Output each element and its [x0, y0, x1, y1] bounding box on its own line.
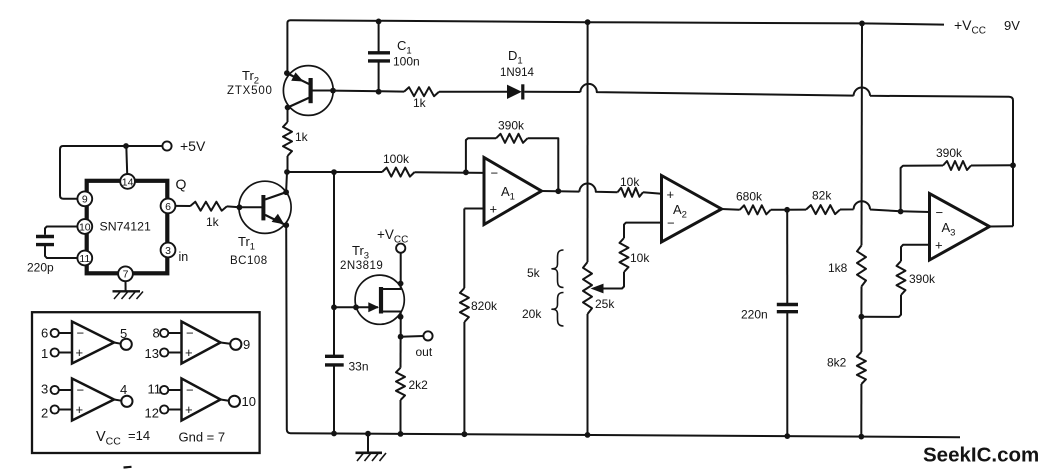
- node Tr1 collector / 1k / 100k line: [284, 169, 290, 175]
- transistor Tr3 channel bar: [379, 287, 383, 314]
- wire +Vcc rail down to 1k8: [861, 23, 864, 245]
- wire 1k to Tr1 base: [227, 205, 239, 208]
- capacitor C1: [368, 51, 390, 54]
- svg-text:9: 9: [243, 337, 250, 352]
- svg-text:ZTX500: ZTX500: [227, 85, 273, 97]
- svg-text:−: −: [936, 205, 944, 220]
- transistor Q Tr1 BC108 circle: [239, 181, 291, 233]
- svg-text:1k: 1k: [206, 215, 220, 229]
- svg-text:=14: =14: [128, 428, 150, 443]
- wire 680k to node: [771, 209, 787, 211]
- terminal +Vcc (Tr3 drain): [396, 244, 405, 253]
- svg-text:Q: Q: [176, 176, 187, 192]
- transistor Tr3 source lead: [383, 312, 401, 337]
- node A1 output: [555, 188, 561, 194]
- resistor R 390k (A1 feedback): [496, 134, 528, 143]
- node top rail / 1k8 divider line: [859, 21, 865, 27]
- svg-text:680k: 680k: [736, 190, 763, 204]
- svg-text:+: +: [76, 345, 84, 360]
- resistor R 820k: [460, 288, 469, 322]
- node top rail / 25k pot line: [585, 19, 591, 25]
- transistor Tr1 base wire inside: [239, 206, 263, 208]
- svg-text:14: 14: [122, 176, 134, 188]
- capacitor C 220p: [36, 235, 54, 238]
- svg-text:2k2: 2k2: [409, 378, 429, 392]
- ground (main rail): [367, 434, 369, 452]
- resistor R 390k (A3 feedback): [943, 161, 971, 170]
- wire divider node to 390k vertical: [861, 295, 901, 317]
- wire A2 minus input to 10k vertical: [624, 223, 662, 238]
- transistor Tr1 collector diagonal: [265, 192, 286, 199]
- capacitor C1 top lead: [378, 21, 380, 52]
- svg-text:−: −: [77, 383, 85, 398]
- svg-text:25k: 25k: [595, 297, 615, 311]
- resistor R 1k (pin6 to Tr1): [190, 202, 227, 211]
- svg-text:SeekIC.com: SeekIC.com: [923, 444, 1039, 467]
- wire out terminal: [401, 335, 424, 338]
- comparator symbol (pins 3,2,4): [72, 379, 114, 421]
- stray mark below box: [124, 466, 132, 469]
- pin 14: [120, 174, 135, 189]
- wire 390k A1 feedback left leg: [466, 138, 496, 172]
- transistor Tr1 emitter arrow (NPN): [272, 214, 285, 225]
- node rail / 8k2: [858, 434, 864, 440]
- svg-text:9: 9: [82, 194, 88, 206]
- svg-text:82k: 82k: [812, 189, 832, 203]
- svg-text:BC108: BC108: [230, 255, 268, 267]
- svg-text:11: 11: [79, 253, 90, 265]
- svg-text:10: 10: [242, 394, 256, 409]
- wire A1 plus input stub: [464, 208, 484, 210]
- transistor Tr2 base bar: [309, 78, 313, 103]
- svg-text:−: −: [186, 383, 194, 398]
- wire 1k to D1: [439, 91, 507, 93]
- resistor R 10k (A2 minus to wiper): [620, 238, 629, 272]
- svg-text:+: +: [667, 187, 675, 202]
- op-amp U A1 triangle: [484, 158, 542, 225]
- transistor Q Tr3 2N3819 circle: [355, 275, 404, 324]
- diode D1 1N914: [507, 85, 522, 99]
- op-amp U A3 triangle: [930, 194, 990, 261]
- pin 11: [77, 251, 92, 266]
- resistor R 680k: [740, 205, 771, 214]
- wire +5V to node: [126, 145, 162, 147]
- wire 2k2 to ground rail: [400, 400, 402, 434]
- svg-text:−: −: [186, 326, 194, 341]
- wire 220n to ground rail: [786, 312, 788, 436]
- wire 220p bottom to pin 11: [45, 246, 78, 258]
- svg-text:Gnd = 7: Gnd = 7: [179, 430, 226, 445]
- resistor R 1k8: [857, 245, 866, 286]
- svg-text:100n: 100n: [393, 55, 420, 69]
- svg-text:8: 8: [153, 325, 160, 340]
- svg-text:−: −: [667, 216, 675, 231]
- svg-text:8k2: 8k2: [827, 356, 847, 370]
- wire A2 output to 680k: [722, 208, 740, 211]
- wire A3 output: [990, 225, 1014, 227]
- node rail / 25k: [585, 432, 591, 438]
- transistor Tr2 emitter diagonal: [287, 73, 310, 84]
- node rail / 820k: [462, 431, 468, 437]
- resistor R 2k2: [396, 368, 405, 400]
- junction Tr1 emitter exit: [283, 222, 289, 228]
- pin 10: [77, 219, 92, 234]
- brace 20k section: [552, 293, 564, 327]
- svg-text:2: 2: [41, 405, 48, 420]
- wire 100k to A1 inverting input: [415, 171, 485, 174]
- wire A3 minus node up leg: [901, 166, 943, 212]
- resistor R 82k: [806, 205, 840, 214]
- svg-text:1k: 1k: [413, 96, 427, 110]
- comparator symbol (pins 8,13,9): [182, 322, 221, 364]
- node 680k / 82k / 220n: [784, 207, 790, 213]
- potentiometer R 25k body: [583, 262, 592, 314]
- junction Tr2 base exit: [330, 88, 336, 94]
- node A3 inverting input / 390k feedback: [898, 209, 904, 215]
- wire 100k-line node down to Tr3 gate and 33n: [333, 172, 335, 356]
- svg-text:390k: 390k: [909, 272, 936, 286]
- svg-text:1N914: 1N914: [500, 67, 534, 79]
- pin 3: [161, 243, 176, 258]
- wire +Vcc top supply rail: [287, 20, 944, 74]
- junction Tr3 gate circle-edge: [353, 304, 359, 310]
- transistor Tr1 emitter diagonal: [265, 215, 286, 225]
- wire 82k to A3 inverting input (hop over divider line): [840, 201, 930, 212]
- junction Tr1 base: [237, 204, 243, 210]
- svg-text:5: 5: [120, 326, 127, 341]
- resistor R 1k (C1-D1 line): [404, 87, 439, 96]
- capacitor C 220n: [777, 303, 798, 306]
- wire Tr1 collector up to node: [285, 172, 288, 192]
- svg-text:+5V: +5V: [180, 138, 206, 154]
- wire 33n to ground rail: [333, 365, 335, 434]
- svg-text:100k: 100k: [383, 152, 410, 166]
- svg-text:−: −: [491, 166, 499, 181]
- svg-text:3: 3: [165, 245, 171, 257]
- node rail / ground stem: [365, 431, 371, 437]
- svg-text:10k: 10k: [630, 251, 650, 265]
- node Tr3 source / out / 2k2: [398, 334, 404, 340]
- svg-text:+: +: [185, 345, 193, 360]
- svg-text:820k: 820k: [471, 299, 498, 313]
- junction Tr3 gate / 33n line: [331, 304, 337, 310]
- svg-text:33n: 33n: [349, 360, 369, 374]
- svg-text:SN74121: SN74121: [100, 220, 151, 234]
- wire pin 6 to 1k: [175, 205, 190, 207]
- op-amp U A2 triangle: [662, 176, 722, 243]
- svg-text:1k8: 1k8: [828, 261, 848, 275]
- junction Tr1 collector exit: [283, 189, 289, 195]
- svg-text:9V: 9V: [1004, 18, 1020, 33]
- wire 10k to wiper arrow: [601, 272, 624, 289]
- resistor R 390k (A3 plus input): [897, 261, 906, 295]
- node rail / 220n: [784, 433, 790, 439]
- resistor R 100k: [382, 168, 415, 177]
- capacitor C1 bottom lead: [378, 61, 380, 92]
- transistor Tr2 collector diagonal: [288, 98, 310, 108]
- terminal out: [423, 331, 432, 340]
- svg-text:in: in: [179, 250, 189, 264]
- wire D1 cathode to right vertical (hops over 587 and 862 lines): [524, 84, 1013, 165]
- node 390k feedback / D1 line / A3 output: [1010, 162, 1016, 168]
- node divider 1k8/8k2/390k: [859, 314, 865, 320]
- pin 6: [161, 199, 176, 214]
- wire A1 output to 10k (hop over pot line): [542, 184, 618, 193]
- junction Tr2 emitter-lead: [284, 70, 290, 76]
- pin 9: [77, 191, 92, 206]
- wire source node to 2k2: [400, 337, 402, 368]
- node top rail / C1: [376, 19, 382, 25]
- svg-text:1k: 1k: [295, 130, 309, 144]
- junction Tr2 collector-lead: [285, 105, 291, 111]
- node +5V / pin14 / pin9 loop: [123, 143, 129, 149]
- wire Tr2 base stub: [312, 90, 333, 92]
- wire 680k node down to 220n: [786, 210, 788, 304]
- transistor Tr3 gate arrow: [368, 302, 379, 312]
- svg-text:+: +: [490, 202, 498, 217]
- wire Tr2 collector down: [287, 108, 289, 123]
- transistor Tr2 emitter arrow (PNP): [291, 72, 303, 81]
- wire 10k to A2 plus input: [643, 192, 662, 194]
- wire node to 100k: [287, 171, 382, 173]
- wire node to pin 14: [125, 146, 128, 174]
- svg-text:390k: 390k: [936, 146, 963, 160]
- svg-text:11: 11: [148, 381, 162, 396]
- wire pin 10 to 220p top: [45, 227, 78, 235]
- svg-text:−: −: [77, 326, 85, 341]
- svg-text:220p: 220p: [27, 261, 54, 275]
- wire 390k A1 feedback right leg: [528, 138, 559, 191]
- IC U SN74121 outline: [87, 181, 168, 273]
- resistor R 8k2: [857, 352, 866, 384]
- resistor R 1k (Tr2 collector): [283, 122, 292, 156]
- wire 1k to 100k-line node: [287, 156, 289, 172]
- wire 8k2 to ground rail: [860, 384, 862, 437]
- node C1 / base line: [376, 89, 382, 95]
- node rail / 33n: [331, 431, 337, 437]
- transistor Tr1 base bar: [261, 195, 265, 220]
- wire 25k pot to ground rail: [587, 314, 589, 435]
- svg-text:+: +: [185, 402, 193, 417]
- resistor R 10k (A1 to A2): [618, 188, 644, 197]
- junction Tr3 drain circle-edge: [398, 281, 404, 287]
- svg-text:2N3819: 2N3819: [340, 260, 383, 272]
- transistor Tr3 drain lead: [383, 253, 401, 289]
- svg-text:+: +: [935, 238, 943, 253]
- svg-text:220n: 220n: [741, 308, 768, 322]
- svg-text:1: 1: [41, 346, 48, 361]
- svg-text:13: 13: [145, 346, 159, 361]
- capacitor C 33n: [325, 355, 344, 358]
- wire 390k feedback to right vertical: [971, 164, 1013, 166]
- svg-text:6: 6: [41, 325, 48, 340]
- transistor Q Tr2 ZTX500 circle: [283, 66, 333, 116]
- wire A1 plus input down leg: [463, 209, 465, 289]
- svg-text:12: 12: [145, 405, 159, 420]
- wire Tr3 gate: [334, 306, 378, 308]
- wire Tr2 base to C1 node to 1k: [333, 91, 404, 92]
- comparator symbol (pins 11,12,10): [182, 379, 221, 421]
- junction Tr3 source circle-edge: [398, 314, 404, 320]
- svg-text:20k: 20k: [522, 307, 542, 321]
- wire node to pin 9 (left loop): [60, 146, 126, 199]
- node 100k line / Tr3 branch: [331, 169, 337, 175]
- svg-text:4: 4: [120, 382, 127, 397]
- pin 7: [118, 266, 133, 281]
- ground (pin 7): [125, 281, 127, 290]
- svg-text:+: +: [76, 402, 84, 417]
- node A1 inverting input / 390k feedback: [463, 169, 469, 175]
- comparator symbol (pins 6,1,5): [72, 322, 114, 364]
- wire 820k to ground rail: [463, 322, 465, 434]
- svg-text:7: 7: [123, 269, 129, 281]
- svg-text:10: 10: [79, 221, 91, 233]
- terminal +5V: [162, 141, 171, 150]
- wire node to 82k: [787, 209, 806, 211]
- pot wiper arrow: [591, 284, 604, 294]
- wire +Vcc rail down to 25k pot: [587, 22, 589, 262]
- wire divider node to 8k2: [860, 317, 862, 352]
- wire right vertical down to A3 output: [1012, 165, 1014, 226]
- box comparator pinout outline: [32, 312, 260, 453]
- svg-text:6: 6: [165, 201, 171, 213]
- brace 5k section: [552, 250, 564, 288]
- svg-text:10k: 10k: [620, 175, 640, 189]
- wire 390k to A3 plus input: [901, 245, 930, 261]
- wire 1k8 to divider node: [860, 286, 862, 316]
- wire Tr1 emitter to ground rail / ground rail: [286, 225, 960, 437]
- svg-text:3: 3: [41, 381, 48, 396]
- svg-text:390k: 390k: [498, 119, 525, 133]
- svg-text:5k: 5k: [527, 266, 541, 280]
- svg-text:out: out: [416, 345, 433, 359]
- node rail / 2k2: [398, 431, 404, 437]
